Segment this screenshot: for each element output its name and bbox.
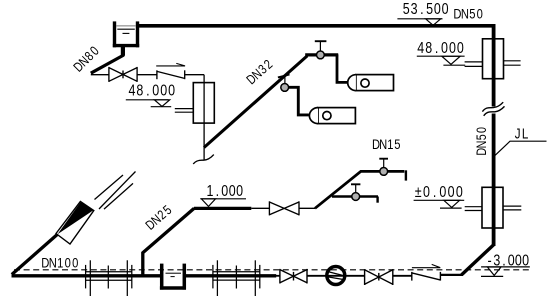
label DN25 <box>142 202 174 233</box>
svg-text:53.500: 53.500 <box>403 0 449 18</box>
heater W2 (48.000 level) <box>483 39 504 79</box>
top main pipe <box>138 24 496 28</box>
elevation 48.000 left <box>129 82 176 100</box>
junction faucet F2 <box>284 77 286 83</box>
check valve CV2 <box>412 264 441 280</box>
sump tank <box>160 264 186 290</box>
wall sleeve right <box>213 260 260 296</box>
elevation 53.500 <box>403 0 449 18</box>
tank outlet stub <box>121 47 125 56</box>
valve V4 <box>365 269 393 285</box>
heater W3 (±0.000 level) <box>482 187 503 228</box>
label DN50 vertical <box>474 127 489 156</box>
fixture X2 (cistern) <box>309 108 355 124</box>
DN32 top run <box>305 53 338 56</box>
svg-text:1.000: 1.000 <box>206 183 243 201</box>
svg-text:DN15: DN15 <box>372 137 401 152</box>
elevation -3.000 <box>488 252 530 270</box>
riser bend into basement <box>462 244 495 275</box>
elevation 1.000 <box>206 183 243 201</box>
gate valve V1 <box>109 67 137 82</box>
fixture X1 (cistern) <box>348 75 394 91</box>
bottom main pipe <box>12 274 161 277</box>
break symbol on drop pipe <box>193 155 214 164</box>
label DN15 <box>372 137 401 152</box>
branch pipe to fixture X2 <box>289 87 309 115</box>
valve V2 <box>269 201 299 215</box>
svg-text:DN50: DN50 <box>453 7 482 22</box>
water tank (roof) <box>113 21 139 47</box>
heater W1 <box>193 83 214 124</box>
tank interior pipe line <box>116 25 136 27</box>
supply arrow outline <box>56 202 94 245</box>
svg-text:DN100: DN100 <box>41 255 78 270</box>
riser JL lower segment <box>492 114 496 247</box>
pipe DN25 <box>143 208 194 275</box>
supply pipe DN100 diagonal <box>12 233 59 274</box>
break symbol on riser <box>482 102 503 111</box>
drop to fixture X1 <box>337 54 349 82</box>
main pipe at 1.000 <box>194 207 251 210</box>
svg-text:JL: JL <box>515 125 529 142</box>
elevation 48.000 right <box>417 40 464 58</box>
valve V3 <box>280 269 307 284</box>
elevation ±0.000 <box>415 184 463 202</box>
faucet F1 <box>319 42 321 51</box>
label JL with leader <box>515 125 529 142</box>
label DN50 top <box>453 7 482 22</box>
riser JL upper segment <box>492 24 496 107</box>
drop pipe to heater W1 <box>203 75 205 160</box>
svg-text:DN50: DN50 <box>474 127 489 156</box>
check valve CV1 <box>156 63 185 79</box>
water meter M1 <box>327 267 345 285</box>
faucet F4 <box>355 185 357 193</box>
pipe DN80 diagonal <box>91 55 124 73</box>
label DN100 <box>41 255 78 270</box>
label DN80 <box>70 43 102 75</box>
label DN32 <box>243 56 275 87</box>
supply arrow solid half <box>58 202 94 234</box>
wire DN80 horizontal segments <box>91 74 109 76</box>
pipe DN15 <box>315 171 404 208</box>
wall sleeve left <box>86 260 132 296</box>
meter train wires <box>276 275 280 277</box>
break lines <box>95 175 124 200</box>
pipe DN32 diagonal <box>204 56 307 148</box>
lower DN15 branch <box>332 195 378 198</box>
faucet F3 <box>383 159 385 167</box>
dashed datum line <box>14 269 530 271</box>
